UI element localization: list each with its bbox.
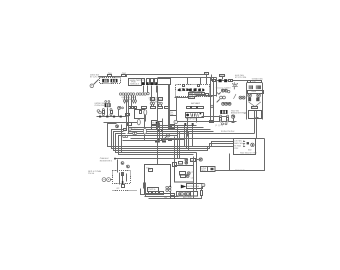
funnel box [252, 107, 258, 110]
push switch S4 [227, 115, 229, 122]
relay assembly dashed box [176, 85, 210, 97]
dark arrow left [181, 185, 187, 189]
box on bus [169, 127, 172, 129]
pin labels text [122, 96, 137, 101]
small left boxes [159, 130, 162, 141]
small box on wire [210, 120, 215, 123]
lamp cluster B [222, 102, 232, 105]
terminal strip [129, 107, 170, 109]
box right label [170, 111, 177, 116]
connector pair D [132, 100, 136, 104]
label box mid [169, 139, 173, 142]
relay feed wires [188, 75, 214, 121]
cluster label box [191, 159, 196, 163]
wire ECU right feed [216, 78, 218, 97]
cab enclosure box [145, 165, 171, 194]
wire resistor feed [116, 158, 187, 160]
relay sub box [189, 97, 196, 100]
arrow box [187, 184, 203, 189]
pin labels text 2 [149, 96, 164, 103]
panel dark blob [247, 142, 249, 144]
resistor block box [113, 171, 131, 185]
vertical drop left [117, 160, 119, 173]
svg-text:OFF: OFF [234, 147, 239, 150]
wire battery diagonal [94, 81, 98, 85]
harness L-wire 4 [116, 134, 197, 153]
verticals below pump [188, 118, 197, 147]
bold breaker right [220, 110, 227, 114]
svg-text:BLK GND: BLK GND [183, 196, 193, 199]
blob white notches [181, 88, 203, 91]
panel lamp [251, 143, 255, 147]
svg-text:B+ 12V 30A: B+ 12V 30A [90, 76, 102, 79]
text right block [235, 74, 247, 79]
component sp2 [123, 135, 128, 137]
label box top [205, 72, 209, 75]
cluster side verticals [194, 153, 197, 199]
lamp cluster A row2 [220, 96, 226, 99]
cluster row 2 [181, 175, 190, 178]
circle row drops [125, 96, 136, 107]
connector pair C [123, 100, 127, 104]
wire top row boxes [155, 140, 166, 142]
svg-text:FAN SELECT SW: FAN SELECT SW [240, 151, 257, 154]
circle pair left [97, 110, 101, 114]
svg-text:RT 12V 20A: RT 12V 20A [235, 76, 247, 79]
long wire B [129, 130, 214, 132]
box on vertical pair [126, 114, 130, 116]
cluster top small box [179, 162, 183, 165]
marks under cluster [218, 93, 221, 95]
ground stem [234, 83, 236, 84]
breaker label text [231, 109, 248, 114]
sp circle 1 [121, 162, 124, 165]
bottom wire labels [164, 196, 193, 199]
mid box small [128, 123, 132, 126]
wire pair drops [152, 105, 162, 107]
svg-text:( 1 ) ( 2 ): ( 1 ) ( 2 ) [215, 124, 223, 127]
dashed fuse box [100, 78, 121, 84]
lamp cluster top lamps [185, 158, 188, 164]
panel arrows [243, 141, 245, 148]
terminal circle T1 [174, 120, 177, 123]
small box coil wire [206, 94, 209, 97]
motor frame [247, 83, 263, 120]
chain wires [212, 75, 248, 81]
relay coil box [189, 94, 199, 97]
relay top pins [183, 85, 200, 87]
fuse capsule FU2 [137, 119, 140, 125]
svg-text:SPD: SPD [201, 169, 206, 172]
motor top box [248, 80, 262, 83]
box TB2 [152, 121, 158, 125]
fuse capsule FU3 [143, 115, 146, 141]
left cluster label [95, 102, 107, 107]
extra pin circle [147, 92, 149, 94]
svg-text:MODULE: MODULE [130, 82, 140, 85]
lamp pair right [239, 96, 245, 99]
switch contact [97, 80, 99, 82]
bus wire left [97, 116, 128, 118]
right side labels [201, 167, 216, 173]
svg-text:GBX: GBX [252, 107, 257, 110]
relay contact blob 1 [178, 88, 189, 91]
small squares left [173, 163, 177, 167]
svg-text:RLY 1: RLY 1 [189, 97, 195, 100]
connector pair left [102, 178, 112, 182]
wire through [162, 139, 185, 141]
bottom wire labels [171, 194, 175, 199]
small circle [122, 107, 124, 109]
harness L-wire 3 [114, 132, 234, 151]
switch circle mid [164, 134, 170, 140]
wire mid h2 [123, 140, 161, 142]
diagonal stem right [234, 87, 237, 99]
wire mid h1 [121, 135, 178, 137]
relay K1 box [135, 110, 145, 119]
ECU cell 4 [155, 79, 158, 86]
push switch S3 [220, 115, 222, 122]
box TB3 [159, 122, 163, 128]
brush bar left [249, 85, 253, 89]
bottom cells [149, 192, 159, 194]
box TB4 [152, 126, 157, 130]
mid circle comp [129, 128, 132, 131]
pump box M1 [186, 113, 204, 118]
ECU box U1 [129, 79, 145, 86]
wire mid left [104, 122, 138, 124]
ECU side box [158, 79, 171, 85]
chain label box [220, 75, 227, 80]
ECU cell 2 [146, 79, 149, 86]
blob top circles [105, 101, 110, 103]
relay hatched row [189, 93, 205, 95]
bottom small box [160, 192, 164, 195]
bottom wires [141, 183, 179, 199]
battery terminal circle [90, 84, 94, 88]
svg-text:CN12: CN12 [220, 75, 226, 78]
mid circle pair low [133, 132, 137, 134]
fuse boxes above pairs [151, 98, 163, 101]
mid vertical drop [157, 141, 159, 165]
harness inner vertical [121, 125, 123, 153]
CxxxR text [100, 157, 116, 162]
wire into motor [245, 80, 248, 82]
svg-text:A/C UNIT: A/C UNIT [191, 102, 201, 105]
sun symbol [233, 83, 238, 89]
lamp cluster A [221, 89, 230, 93]
wire y77 link [158, 77, 217, 79]
mid verticals x157-164 [158, 86, 163, 143]
label CB2 [122, 72, 127, 76]
right circle [202, 183, 205, 186]
component sp1 [124, 128, 127, 130]
connector pair A [150, 102, 155, 104]
panel box [234, 139, 256, 155]
cluster row 1 [180, 172, 191, 176]
long wire D [131, 138, 265, 140]
ECU cell 1 [142, 79, 145, 86]
long wire A [129, 126, 204, 128]
bottom circles cluster [166, 186, 171, 192]
svg-text:CN 5A: CN 5A [88, 172, 95, 175]
brush bar right [256, 85, 261, 89]
lower circles [222, 123, 228, 125]
panel small text [240, 148, 257, 154]
fuse capsule FU1 [144, 110, 147, 122]
svg-text:CN22 A: CN22 A [148, 188, 156, 191]
right outer loop [216, 139, 265, 171]
row box below [187, 106, 204, 108]
vertical pair mid [127, 101, 129, 134]
wire relay to T1 [176, 97, 178, 121]
bottom wire [161, 196, 202, 199]
right feed diagonal [209, 97, 220, 108]
wire cell drops [144, 86, 157, 102]
small box j [149, 168, 153, 171]
svg-text:GND BUS: GND BUS [235, 169, 245, 172]
ECU cell 3 [151, 79, 154, 86]
connector pin row 1 [119, 93, 134, 95]
left block label [88, 170, 101, 175]
breaker bold left [105, 103, 111, 107]
box right lower [170, 125, 175, 129]
bottom connector box [148, 188, 159, 192]
right chain connector [213, 79, 233, 82]
connector pair B [158, 102, 163, 104]
push switch S1 [102, 109, 104, 116]
wire top feed [99, 75, 205, 77]
bottom lamp box [177, 192, 198, 197]
wire coil out [196, 95, 217, 97]
fuse F1 striped blob [102, 79, 109, 83]
svg-text:ARM: ARM [252, 90, 257, 93]
commutator right [256, 94, 260, 102]
fuse F2 striped blob [111, 79, 118, 83]
svg-text:RESISTOR 4: RESISTOR 4 [100, 159, 113, 162]
cluster row labels [191, 171, 194, 180]
relay contact blob 2 [189, 88, 205, 91]
panel text rows [234, 140, 243, 150]
mid verticals down [175, 126, 189, 167]
push switch S2 [110, 109, 113, 116]
resistor vertical [201, 187, 203, 196]
motor mid box [248, 90, 264, 93]
riser from breaker [107, 108, 109, 116]
lamp right top [196, 158, 203, 161]
label CB1 [108, 72, 113, 76]
motor lower box [249, 111, 262, 119]
sp circle 2 [127, 165, 130, 168]
wire switch bus low [178, 121, 237, 123]
vertical bus pair [169, 85, 170, 127]
harness L-wire 1 [108, 124, 234, 147]
commutator left [248, 94, 252, 102]
below block element [117, 185, 125, 191]
bus tabs [99, 116, 122, 118]
connector pin row 2 [136, 93, 146, 95]
lamp L2 [116, 125, 119, 128]
long wire C [128, 133, 255, 135]
svg-text:M: M [244, 112, 246, 115]
lamp L1 [118, 107, 121, 117]
svg-text:SW: SW [170, 113, 173, 116]
cluster main box [175, 166, 194, 183]
wire pump out [202, 116, 228, 118]
svg-text:IND: IND [248, 148, 252, 151]
funnel [249, 102, 261, 107]
text mid notes [129, 128, 137, 133]
battery label text [90, 73, 102, 78]
motor legs [255, 111, 257, 139]
svg-text:PUSH ON SW: PUSH ON SW [221, 130, 234, 133]
dashed floor [113, 190, 137, 192]
wire into relay [175, 97, 189, 99]
dark arrow marks [184, 123, 193, 126]
harness L-wire 2 [112, 130, 234, 149]
harness L-wire 5 [119, 136, 194, 155]
lamp L3 [231, 115, 234, 123]
